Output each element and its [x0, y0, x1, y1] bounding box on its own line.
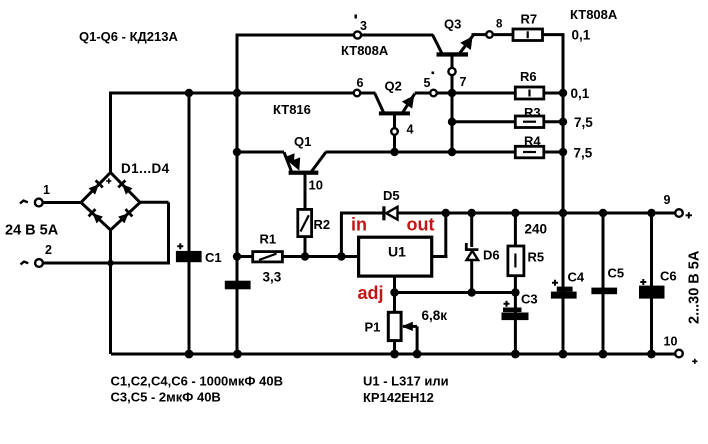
wire input terminal 2 run y=263 — [42, 262, 169, 265]
capacitor C6 plus mark — [640, 279, 646, 285]
dot after 5 — [432, 72, 435, 75]
resistor R6 — [515, 87, 544, 99]
capacitor C1 plus mark — [177, 243, 183, 249]
wire Q1 base to R2 to R1 node — [304, 174, 307, 257]
transistor Q3 emitter diagonal — [460, 35, 473, 53]
junction on ground rail at (651.5,354) — [647, 350, 656, 359]
transistor Q3 collector diagonal — [433, 35, 442, 54]
junction R1-R2 node — [301, 252, 309, 260]
wire Q3 base vertical x=452 — [451, 55, 454, 152]
wire D5 row y=213 — [340, 212, 383, 215]
wire D6 branch upper — [470, 213, 473, 247]
junction at (471.7,213) — [468, 209, 476, 217]
svg-text:C1,C2,C4,C6 - 1000мкФ 40В: C1,C2,C4,C6 - 1000мкФ 40В — [111, 374, 283, 389]
svg-text:R2: R2 — [314, 217, 331, 232]
node terminal 8 — [486, 31, 493, 38]
svg-text:3,3: 3,3 — [263, 270, 282, 285]
svg-text:D6: D6 — [483, 248, 500, 263]
svg-text:U1 - L317 или: U1 - L317 или — [363, 374, 449, 389]
transistor Q3 bar — [437, 52, 469, 56]
transistor Q1 bar — [289, 171, 319, 175]
svg-text:R4: R4 — [524, 133, 541, 148]
potentiometer P1 wiper arrow — [402, 322, 413, 331]
svg-text:КТ808А: КТ808А — [341, 43, 389, 58]
junction on ground rail at (237.5,354) — [233, 350, 242, 359]
resistor R4 — [515, 146, 544, 158]
capacitor C6 — [639, 286, 665, 299]
wire R7 to right bus — [542, 33, 564, 36]
node terminal 5 — [430, 90, 437, 97]
wire Q3 emitter to terminal 8 — [472, 33, 487, 36]
wire bridge bottom vertex down to ground rail — [109, 229, 112, 354]
svg-text:D5: D5 — [383, 188, 400, 203]
junction at (452,93) — [448, 89, 456, 97]
transistor Q2 emitter arrow — [402, 95, 414, 108]
diode D6 cathode bar with zener tick — [466, 243, 478, 250]
svg-text:6: 6 — [357, 76, 364, 90]
svg-text:8: 8 — [496, 19, 503, 31]
resistor R7 — [513, 29, 543, 41]
resistor R3 — [515, 116, 544, 128]
wire R5 branch upper — [514, 213, 517, 246]
diode D1 (bridge top-left edge) — [88, 180, 102, 194]
tilde at terminal 2 — [21, 262, 29, 265]
wire C6 branch x=651.5 — [650, 213, 653, 354]
capacitor C4 plus mark — [552, 280, 558, 286]
potentiometer P1 body — [388, 312, 401, 340]
svg-text:7,5: 7,5 — [574, 146, 593, 161]
junction crossing dot at bridge bottom / terminal 2 wire — [107, 260, 113, 266]
svg-text:7,5: 7,5 — [574, 115, 593, 130]
wire C5 branch x=603 — [602, 213, 605, 354]
wire Q1 drive row y=152 right part to R4 and bus — [326, 151, 564, 154]
junction at (651.5,213) — [647, 209, 655, 217]
junction on ground rail at (189,354) — [185, 350, 194, 359]
svg-text:R1: R1 — [260, 232, 277, 247]
junction at (237,93) — [233, 89, 241, 97]
wire R5-C3 branch lower x=515.4 — [514, 276, 517, 355]
wire U1 out riser x=445.8 — [444, 213, 447, 258]
bridge rectifier diamond D1...D4 — [81, 173, 140, 231]
svg-text:C3: C3 — [521, 292, 538, 307]
junction at (515.4,213) — [511, 209, 519, 217]
resistor R5 — [508, 246, 524, 276]
svg-text:КТ816: КТ816 — [273, 102, 311, 117]
capacitor C5 — [591, 288, 617, 295]
wire top rail (node 3 run) from left corner to Q3 collector — [237, 34, 433, 37]
svg-text:2: 2 — [45, 243, 52, 257]
svg-text:U1: U1 — [388, 244, 406, 260]
wire V+ rail y=93 from bridge corner to Q2 collector — [111, 92, 375, 95]
diode D5 cathode bar — [382, 206, 385, 220]
svg-text:3: 3 — [360, 19, 367, 33]
junction at (563,93) — [559, 89, 567, 97]
wire D5 riser x=341.4 — [340, 213, 343, 257]
svg-text:24 В 5А: 24 В 5А — [5, 223, 59, 239]
resistor R1 — [253, 252, 283, 262]
wire P1 wiper horizontal — [403, 325, 417, 328]
node terminal 7 (Q3 base) — [448, 68, 455, 75]
node terminal 10 — [675, 350, 683, 358]
capacitor C1 — [176, 251, 202, 262]
node terminal 2 — [35, 259, 43, 267]
junction on ground rail at (515.4,354) — [511, 350, 520, 359]
svg-text:R7: R7 — [521, 12, 538, 27]
wire terminal 8 to R7 — [493, 33, 515, 36]
transistor Q2 emitter diagonal — [403, 94, 415, 113]
diode D3 (bridge bottom-left edge) — [89, 209, 103, 223]
svg-text:0,1: 0,1 — [571, 86, 590, 101]
svg-text:КР142ЕН12: КР142ЕН12 — [363, 390, 434, 405]
wire output row y=213 from D5 to terminal 9 — [397, 212, 677, 215]
transistor Q2 collector diagonal — [375, 93, 384, 113]
wire terminal 2 riser to bridge right vertex — [167, 202, 170, 264]
wire R3 row y=121.8 — [452, 120, 563, 123]
svg-text:D1...D4: D1...D4 — [121, 161, 170, 176]
svg-text:240: 240 — [525, 222, 548, 237]
wire U1 out pin — [432, 255, 448, 258]
junction on ground rail at (603,354) — [599, 350, 608, 359]
junction at (515.4,292.5) — [511, 288, 519, 296]
wire P1 wiper vertical to ground rail — [416, 326, 419, 354]
transistor Q3 emitter arrow — [460, 36, 472, 50]
svg-text:Q1-Q6 - КД213А: Q1-Q6 - КД213А — [79, 29, 178, 44]
junction D5 riser at U1 in — [337, 252, 345, 260]
capacitor C2 — [225, 281, 251, 290]
svg-text:adj: adj — [358, 283, 384, 303]
wire Q1 drive row y=152 left part — [237, 151, 284, 154]
junction at (452,121.8) — [448, 118, 456, 126]
svg-text:Q3: Q3 — [444, 17, 461, 32]
svg-text:6,8к: 6,8к — [422, 308, 448, 323]
capacitor C3 — [503, 308, 522, 313]
svg-text:R3: R3 — [524, 105, 541, 120]
wire main left vertical bus x=237 — [236, 34, 239, 355]
svg-text:7: 7 — [460, 75, 467, 89]
wire D6 branch lower — [470, 259, 473, 293]
resistor R2 — [298, 209, 312, 236]
svg-text:Q1: Q1 — [294, 134, 311, 149]
transistor Q1 emitter arrow (PNP, into bar) — [289, 157, 300, 170]
svg-text:0,1: 0,1 — [572, 28, 591, 43]
svg-text:2...30 В 5А: 2...30 В 5А — [687, 250, 703, 324]
transistor Q1 right diagonal — [312, 152, 326, 171]
junction at (189,93) — [185, 89, 193, 97]
junction at (563,121.8) — [559, 118, 567, 126]
diode D5 triangle — [386, 207, 397, 220]
svg-text:4: 4 — [407, 123, 414, 137]
wire U1 adj pin down to P1 — [393, 276, 396, 313]
diode D6 triangle — [467, 251, 479, 260]
transistor Q1 collector diagonal — [284, 152, 292, 171]
svg-text:10: 10 — [309, 178, 323, 193]
svg-text:КТ808А: КТ808А — [570, 7, 618, 22]
wire P1 bottom to ground rail — [393, 340, 396, 354]
junction at (394.5,292.5) — [390, 288, 398, 296]
capacitor C4 — [557, 287, 573, 292]
node terminal 3 — [354, 31, 361, 38]
wire bridge right vertex link — [139, 201, 169, 204]
svg-text:10: 10 — [664, 335, 678, 349]
wire R1 row y=256.5 from bus to U1 — [237, 255, 359, 258]
node terminal 9 — [675, 209, 683, 217]
junction at (452,152) — [448, 148, 456, 156]
svg-text:5: 5 — [424, 76, 431, 90]
plus mark at bridge top vertex — [106, 178, 111, 183]
junction on ground rail at (394.5,354) — [390, 350, 399, 359]
capacitor C3 plus mark — [504, 301, 510, 307]
svg-text:1: 1 — [43, 183, 50, 197]
wire V+ rail y=93 from Q2 emitter to R6 and bus — [415, 92, 563, 95]
wire Q2 base vertical — [393, 114, 396, 152]
svg-text:out: out — [407, 215, 435, 235]
junction at (237,152) — [233, 148, 241, 156]
wire ground rail y=354 — [111, 353, 676, 356]
svg-text:C6: C6 — [660, 269, 677, 284]
junction on ground rail at (563,354) — [559, 350, 568, 359]
junction at (563,213) — [559, 209, 567, 217]
svg-text:C3,C5 - 2мкФ 40В: C3,C5 - 2мкФ 40В — [111, 390, 221, 405]
wire adj row y=292.5 — [395, 291, 516, 294]
svg-text:C5: C5 — [608, 266, 625, 281]
svg-text:R6: R6 — [520, 69, 537, 84]
wire C1 branch x=189 — [188, 93, 191, 354]
wire right resistor bus x=563 from R7 down to output rail — [562, 34, 565, 355]
node terminal 1 — [35, 199, 43, 207]
junction at (445.8,213) — [442, 209, 450, 217]
junction at (394.5,152) — [390, 148, 398, 156]
junction at (603,213) — [599, 209, 607, 217]
svg-text:R5: R5 — [528, 250, 545, 265]
wire input terminal 1 to bridge — [41, 201, 81, 204]
diode D2 (bridge top-right edge) — [118, 180, 132, 194]
diode D4 (bridge bottom-right edge) — [118, 209, 132, 223]
junction at (563,152) — [559, 148, 567, 156]
svg-text:C1: C1 — [205, 250, 222, 265]
junction on ground rail at (417.1,354) — [413, 350, 422, 359]
svg-text:P1: P1 — [365, 320, 381, 335]
node terminal 4 (Q2 base) — [391, 128, 398, 135]
node terminal 6 — [354, 90, 361, 97]
svg-text:9: 9 — [664, 193, 671, 207]
op-amp U1 (regulator body) — [359, 237, 432, 276]
transistor Q2 bar — [379, 111, 410, 115]
plus mark at terminal 9 — [686, 212, 692, 218]
tilde at terminal 1 — [20, 201, 28, 204]
junction at (471.7,292.5) — [468, 288, 476, 296]
svg-text:C4: C4 — [568, 270, 585, 285]
junction R1 left at bus — [233, 252, 241, 260]
tick above 3 — [355, 15, 357, 19]
wire bridge top vertex riser — [109, 92, 112, 174]
svg-text:in: in — [351, 215, 367, 235]
svg-text:Q2: Q2 — [385, 79, 402, 94]
plus mark below terminal 10 — [692, 359, 697, 364]
